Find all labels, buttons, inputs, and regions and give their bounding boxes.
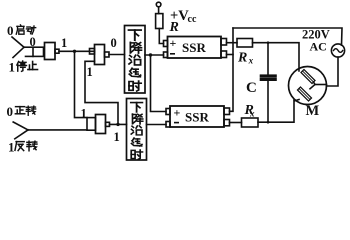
SSR2 output stub top (224, 108, 230, 115)
label 1 fanzhuan (8, 140, 37, 155)
capacitor C plate top (261, 75, 277, 77)
delay block 1 text xia jiang yan yan shi (129, 30, 142, 91)
resistor R (156, 14, 163, 29)
resistor Rx2 (242, 118, 259, 127)
delay block 1 box (125, 26, 146, 94)
gate U3 body (96, 115, 106, 134)
resistor Rx1 (237, 39, 253, 48)
terminal +Vcc (156, 2, 161, 7)
gate U2 output bump (105, 52, 110, 57)
gate U3 output bump (106, 122, 110, 126)
motor M body circle (289, 67, 327, 105)
wire capacitor C top to Rx1 node (267, 43, 269, 75)
wire delay block 1 to SSR1 minus (145, 54, 164, 56)
wire stop-contact to gate U1 stub bottom (26, 55, 34, 57)
wire resistor Rx1 to motor top (253, 43, 300, 71)
SSR2 output stub bottom (224, 120, 230, 126)
svg-text:cc: cc (188, 14, 197, 25)
svg-text:1: 1 (8, 140, 15, 155)
wire top supply bus (233, 28, 342, 45)
gate U1 output bump (55, 49, 59, 53)
label SSR1 minus (170, 53, 175, 55)
wire gate U3 output to delay block 2 (110, 123, 127, 125)
node junction B (116, 123, 119, 126)
wire bus vertical to SSR2 top output (230, 28, 234, 111)
wire switch S1 to gate U1 input (24, 46, 33, 48)
SSR1 output stub bottom (221, 51, 227, 58)
wire terminal to resistor R (158, 7, 160, 14)
label +Vcc (170, 8, 197, 25)
label 1 tingzhi (9, 60, 38, 75)
svg-text:+: + (170, 36, 177, 50)
label 0 qidong (7, 23, 36, 38)
label 0 zhengzhuan (7, 104, 36, 119)
delay block 2 text xia jiang yan yan shi (131, 103, 143, 160)
SSR1 plus stub (164, 41, 168, 47)
wire feedback gate U3 output to gate U2 lower input (85, 61, 118, 124)
node junction A (73, 50, 76, 53)
svg-text:AC: AC (310, 40, 327, 54)
gate U1 input stub (33, 47, 44, 56)
wire switch S2 to gate U3 (28, 129, 87, 131)
SSR1 minus stub (164, 52, 168, 58)
svg-text:1: 1 (81, 107, 87, 121)
svg-text:0: 0 (7, 23, 14, 38)
wire motor bottom to resistor Rx2 (258, 100, 294, 122)
SSR2 body (170, 106, 224, 127)
gate U2 body (95, 45, 105, 65)
svg-text:SSR: SSR (182, 40, 206, 55)
wire resistor Rx2 to SSR2 bottom output (230, 122, 242, 124)
wire resistor R to SSR1 plus (159, 29, 163, 44)
svg-text:+: + (174, 106, 181, 120)
SSR2 minus stub (166, 122, 170, 128)
switch S1 start/stop blade (12, 37, 24, 58)
label Rx2 (244, 103, 256, 118)
node junction E (267, 121, 270, 124)
wire delay block 2 to SSR2 minus (147, 124, 167, 126)
motor rotor lead right (315, 84, 327, 86)
wire gate U1 output to gate U2 (59, 50, 95, 52)
svg-text:R: R (169, 20, 179, 35)
node junction C (149, 53, 152, 56)
wire gate U2 output to delay block 1 (109, 54, 125, 56)
motor brush connector (310, 82, 315, 89)
svg-text:1: 1 (87, 65, 93, 79)
svg-text:x: x (248, 56, 254, 66)
wire node A down to gate U3 top (75, 51, 88, 117)
switch S2 fwd/rev blade (13, 122, 28, 139)
svg-text:1: 1 (9, 60, 16, 75)
node junction D (267, 41, 270, 44)
label SSR2 minus (174, 122, 179, 124)
AC source tilde (334, 49, 343, 53)
svg-text:SSR: SSR (185, 110, 209, 125)
label Rx1 (237, 51, 254, 66)
motor brush lower (297, 87, 311, 101)
svg-text:M: M (306, 103, 320, 119)
delay block 2 box (127, 99, 147, 161)
capacitor C plate bottom (261, 79, 277, 81)
SSR1 body (168, 37, 222, 59)
gate U1 body (45, 43, 56, 60)
svg-text:x: x (249, 108, 255, 118)
wire node C down to SSR2 plus (151, 55, 167, 112)
wire SSR1 bottom output to bus vertical (227, 54, 234, 56)
svg-text:C: C (246, 80, 257, 96)
gate U3 input stub (87, 118, 96, 131)
wire capacitor C bottom to Rx2 node (267, 80, 269, 122)
motor lead bottom (294, 100, 299, 102)
SSR1 output stub top (221, 39, 227, 46)
wire AC source to motor right (327, 57, 339, 86)
svg-text:0: 0 (7, 104, 14, 119)
svg-text:0: 0 (30, 35, 36, 49)
svg-text:R: R (237, 51, 247, 66)
SSR2 plus stub (166, 109, 170, 115)
gate U2 input stub (90, 49, 95, 55)
svg-text:1: 1 (114, 130, 120, 144)
svg-text:1: 1 (61, 36, 67, 50)
wire SSR1 top output to resistor Rx1 (227, 42, 238, 44)
motor brush upper (301, 69, 315, 83)
svg-text:0: 0 (111, 36, 117, 50)
AC source G1 (331, 44, 344, 57)
